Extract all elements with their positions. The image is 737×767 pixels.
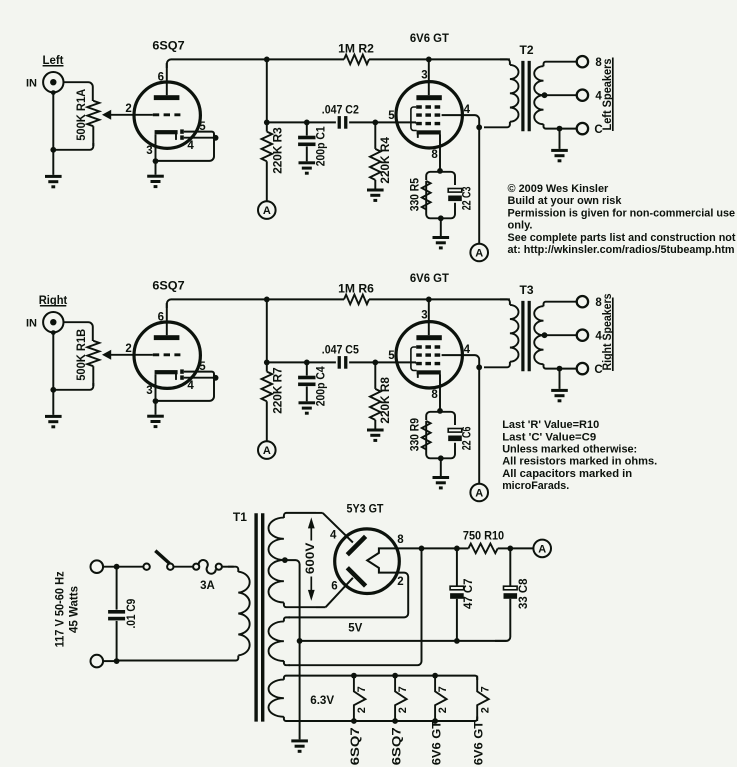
wire: 6V6 screen pin 4 to B+ node [442, 115, 483, 244]
node A (B+ to R3) [258, 201, 276, 219]
svg-text:A: A [263, 205, 271, 217]
6SQ7 control grid (dashes, pin 2) [153, 353, 181, 356]
wire: 6SQ7 plate to top rail [167, 299, 267, 308]
capacitor C5 .047 (coupling) [338, 356, 348, 369]
svg-text:© 2009 Wes Kinsler: © 2009 Wes Kinsler [508, 183, 609, 195]
svg-text:only.: only. [508, 220, 533, 232]
label Left (underlined) [43, 53, 64, 67]
ground (C1) [299, 161, 316, 174]
6SQ7 plate [154, 63, 180, 100]
ground (6V6 cathode network) [433, 458, 450, 489]
ground (6V6 cathode network) [433, 218, 450, 249]
wire: 6V6 cathode network box [426, 408, 455, 461]
ground (input jack Right) [45, 415, 62, 428]
600V span arrow [308, 517, 315, 601]
speaker jack C common (Left) [577, 123, 603, 136]
speaker jack 4 ohm (Right) [577, 330, 603, 343]
capacitor C4 200p [298, 362, 315, 401]
label Right Speakers (vertical) [602, 294, 614, 372]
label R7 220K [273, 367, 285, 414]
svg-text:2: 2 [125, 343, 131, 355]
label 1M R2 [338, 42, 374, 56]
wire: HV bottom lead to 5Y3 plate pin 6 [316, 578, 353, 607]
label 6V6 GT [410, 31, 450, 45]
svg-text:220K R7: 220K R7 [273, 367, 285, 414]
resistor R2 1M [344, 55, 369, 65]
wire: 6SQ7 plate to top rail [167, 59, 267, 68]
wire: top rail (plate feedback line) [264, 297, 510, 303]
label C6 22 [462, 427, 474, 451]
svg-text:A: A [538, 543, 546, 555]
6SQ7 control grid (dashes, pin 2) [153, 113, 181, 116]
5Y3 filament/cathode [367, 548, 398, 572]
speaker jack C common (Right) [577, 363, 603, 376]
svg-text:5: 5 [199, 121, 206, 133]
ground (R4) [367, 189, 384, 202]
svg-text:330 R5: 330 R5 [410, 177, 422, 211]
svg-text:6V6 GT: 6V6 GT [431, 721, 443, 766]
svg-text:Build at your own risk: Build at your own risk [508, 195, 623, 207]
6SQ7 diode plates (pins 4,5) [180, 369, 184, 379]
svg-text:7: 7 [356, 686, 368, 692]
fuse 3A [193, 560, 222, 574]
input jack IN (Left) [43, 72, 63, 95]
svg-text:22 C3: 22 C3 [462, 187, 474, 211]
wire: heater top bus [290, 673, 477, 680]
svg-text:4: 4 [464, 344, 471, 356]
wire: switch to fuse [174, 566, 194, 568]
wire: bottom AC line [103, 660, 117, 662]
svg-text:5: 5 [199, 361, 206, 373]
svg-text:Permission is given for non-co: Permission is given for non-commercial u… [508, 207, 736, 219]
svg-text:33 C8: 33 C8 [518, 578, 530, 609]
transformer T1 6.3V winding [268, 676, 290, 721]
label T2 [519, 43, 533, 57]
svg-text:A: A [263, 445, 271, 457]
svg-text:220K R4: 220K R4 [380, 136, 392, 183]
svg-text:8: 8 [431, 149, 438, 161]
svg-text:2: 2 [397, 707, 409, 713]
label 6.3V [310, 695, 334, 707]
ground (T2 secondary common) [551, 126, 568, 163]
speaker jack 8 ohm (Left) [577, 56, 603, 69]
note: parts conventions block [502, 419, 657, 492]
6V6 beam plates tie bracket [411, 347, 417, 371]
wire: B- return bus [297, 638, 507, 644]
svg-text:220K R8: 220K R8 [380, 376, 392, 423]
6V6 cathode (pin 8) [417, 130, 441, 171]
svg-text:Left: Left [43, 53, 64, 67]
svg-text:See complete parts list and co: See complete parts list and construction… [508, 232, 736, 244]
svg-text:A: A [475, 247, 483, 259]
svg-text:8: 8 [431, 389, 438, 401]
label 6SQ7 [152, 39, 185, 53]
wire: top rail down to coupling node [264, 59, 270, 125]
svg-text:2: 2 [479, 707, 491, 713]
svg-text:.047 C2: .047 C2 [322, 103, 359, 117]
svg-text:6: 6 [158, 311, 164, 323]
label R8 220K [380, 376, 392, 423]
transformer T2 secondary winding [534, 62, 577, 129]
svg-text:500K R1B: 500K R1B [74, 328, 88, 380]
ground (6SQ7 cathode) [147, 401, 164, 428]
wire: T3 secondary tap to 4-ohm jack [542, 332, 577, 338]
wire: top rail (plate feedback line) [264, 57, 510, 63]
svg-text:750 R10: 750 R10 [463, 529, 504, 543]
label Right (underlined) [39, 293, 68, 307]
6V6 grids (three dash rows) [416, 347, 441, 364]
transformer T1 core [256, 513, 263, 721]
svg-text:2: 2 [437, 707, 449, 713]
label R5 330 [410, 177, 422, 211]
6V6 plate (pin 3) [416, 59, 441, 100]
svg-text:220K R3: 220K R3 [273, 127, 285, 174]
6V6 cathode (pin 8) [417, 370, 441, 411]
svg-text:4: 4 [330, 529, 337, 541]
ground (C4) [299, 401, 316, 414]
wire: HV centre tap to ground [282, 557, 300, 739]
heater of 6V6 GT (pins 2,7) at x=435.1 [435, 676, 449, 721]
svg-text:2: 2 [397, 576, 403, 588]
svg-text:Last 'C' Value=C9: Last 'C' Value=C9 [502, 431, 596, 443]
svg-text:2: 2 [356, 707, 368, 713]
label 6V6 GT [410, 271, 450, 285]
note: copyright block [508, 183, 736, 256]
svg-text:4: 4 [187, 140, 194, 152]
wire: heater bottom bus [290, 717, 477, 724]
ground (T3 secondary common) [551, 366, 568, 403]
label 3A [200, 580, 215, 592]
resistor R6 1M [344, 295, 369, 305]
svg-text:Unless marked otherwise:: Unless marked otherwise: [502, 444, 637, 456]
5Y3 plate 1 (pin 4) [347, 536, 365, 554]
svg-text:117 V 50-60 Hz: 117 V 50-60 Hz [55, 571, 67, 647]
6V6 plate (pin 3) [416, 299, 441, 340]
potentiometer R1B 500K [53, 341, 153, 390]
svg-text:6SQ7: 6SQ7 [152, 279, 185, 293]
svg-text:6V6 GT: 6V6 GT [410, 31, 450, 45]
svg-text:T2: T2 [519, 43, 533, 57]
svg-text:6.3V: 6.3V [310, 695, 334, 707]
label 5Y3 GT [347, 501, 385, 515]
svg-text:5: 5 [388, 350, 395, 362]
wire: top AC line to switch [103, 564, 143, 570]
svg-text:at: http://wkinsler.com/radios: at: http://wkinsler.com/radios/5tubeamp.… [508, 244, 735, 256]
heater of 6SQ7 (pins 2,7) at x=353.9 [354, 676, 368, 721]
resistor R9 330 [422, 421, 431, 450]
ground (input jack Left) [45, 175, 62, 188]
svg-text:7: 7 [437, 686, 449, 692]
svg-text:47 C7: 47 C7 [463, 579, 475, 609]
capacitor C6 22 (electrolytic) [448, 429, 462, 442]
label IN [26, 317, 37, 329]
label R4 220K [380, 136, 392, 183]
svg-text:3A: 3A [200, 580, 215, 592]
label T3 [519, 283, 533, 297]
svg-text:Last 'R' Value=R10: Last 'R' Value=R10 [502, 419, 599, 431]
label pin 2 (6SQ7 grid) [125, 103, 131, 115]
svg-text:5: 5 [388, 110, 395, 122]
transformer T2 core [523, 61, 529, 131]
resistor R10 750 [468, 544, 533, 554]
label .01 C9 [126, 599, 138, 629]
AC line terminal top [91, 560, 104, 573]
svg-text:microFarads.: microFarads. [502, 480, 569, 492]
speaker jack 8 ohm (Right) [577, 296, 603, 309]
svg-text:8: 8 [397, 534, 404, 546]
svg-text:6V6 GT: 6V6 GT [410, 271, 450, 285]
svg-text:4: 4 [464, 104, 471, 116]
6SQ7 cathode (pin 3) [155, 130, 178, 161]
transformer T3 secondary winding [534, 302, 577, 369]
wire: 6V6 control grid pin 5 [415, 362, 417, 363]
label R1B 500K [74, 328, 88, 380]
svg-text:330 R9: 330 R9 [410, 418, 422, 451]
svg-text:IN: IN [26, 317, 37, 329]
capacitor C7 47 (filter) [450, 548, 464, 643]
heater of 6V6 GT (pins 2,7) at x=477.2 [477, 676, 491, 721]
label 6V6 GT (heater) [473, 721, 485, 766]
svg-text:3: 3 [421, 70, 427, 82]
svg-text:IN: IN [26, 77, 37, 89]
rectifier 5Y3 GT envelope [335, 529, 400, 594]
svg-text:2: 2 [125, 103, 131, 115]
svg-text:5V: 5V [348, 623, 362, 635]
label 47 C7 [463, 579, 475, 609]
transformer T3 core [523, 301, 529, 371]
wire: 5Y3 pin 8 to filter [399, 546, 469, 552]
6SQ7 cathode (pin 3) [155, 370, 178, 401]
svg-text:1M R6: 1M R6 [338, 282, 374, 296]
svg-text:All capacitors marked in: All capacitors marked in [502, 468, 632, 480]
svg-text:All resistors marked in ohms.: All resistors marked in ohms. [502, 456, 657, 468]
label 6SQ7 (heater) [350, 727, 362, 765]
heater of 6SQ7 (pins 2,7) at x=395.1 [395, 676, 409, 721]
wire: coupling node row [267, 360, 416, 366]
power switch [143, 551, 173, 570]
svg-text:200p C4: 200p C4 [316, 366, 328, 407]
svg-text:500K R1A: 500K R1A [74, 88, 88, 140]
label 6SQ7 [152, 279, 185, 293]
wire: diode plates tied to cathode ground loop [153, 132, 219, 164]
labels pins 3,4,5,8 of 6V6 [388, 310, 470, 402]
wire: HV top lead to 5Y3 plate pin 4 [316, 513, 353, 543]
svg-text:3: 3 [146, 385, 152, 397]
wire: T2 secondary tap to 4-ohm jack [542, 92, 577, 98]
resistor R7 220K (plate load) [262, 362, 273, 441]
AC line terminal bottom [91, 655, 104, 668]
6V6 grids (three dash rows) [416, 107, 441, 124]
label 117 V 50-60 Hz 45 Watts [55, 571, 81, 647]
transformer T1 primary winding [117, 567, 250, 661]
label C1 200p [316, 126, 328, 167]
potentiometer R1A 500K [53, 101, 153, 150]
capacitor C3 22 (electrolytic) [448, 189, 462, 202]
svg-text:6: 6 [331, 581, 337, 593]
transformer T3 primary winding [484, 299, 519, 367]
labels pins 3,4,5,6 of 6SQ7 [146, 311, 206, 397]
ground (R8) [367, 429, 384, 442]
capacitor C1 200p [298, 122, 315, 161]
svg-text:5Y3 GT: 5Y3 GT [347, 501, 385, 515]
svg-text:22 C6: 22 C6 [462, 427, 474, 451]
wire: Left input jack to pot top [56, 82, 93, 101]
svg-text:3: 3 [421, 310, 427, 322]
resistor R5 330 [422, 181, 431, 210]
label 6V6 GT (heater) [431, 721, 443, 766]
label 750 R10 [463, 529, 504, 543]
capacitor C2 .047 (coupling) [338, 116, 348, 129]
5Y3 plate 2 (pin 6) [347, 568, 365, 586]
transformer T1 HV secondary winding [269, 513, 317, 607]
svg-text:T1: T1 [233, 510, 247, 524]
label T1 [233, 510, 247, 524]
node A (B+ at 6V6 screen, Right) [470, 484, 488, 502]
svg-text:3: 3 [146, 145, 152, 157]
beam tetrode 6V6 GT (Right channel) envelope [396, 322, 462, 388]
wire: 6V6 screen pin 4 to B+ node [442, 355, 483, 484]
wire: 5Y3 pin 2 to 5V winding top [289, 573, 409, 618]
wire: 5V winding bottom to B+ (pin 8) [289, 548, 422, 665]
svg-text:45 Watts: 45 Watts [69, 586, 81, 633]
capacitor C8 33 (filter) [495, 548, 517, 641]
triode 6SQ7 (Right channel) envelope [134, 322, 200, 388]
label pin 2 (6SQ7 grid) [125, 343, 131, 355]
label IN [26, 77, 37, 89]
wire: coupling node row [267, 120, 416, 126]
label .047 C2 [322, 103, 359, 117]
svg-text:6SQ7: 6SQ7 [350, 727, 362, 765]
wire: jack down to ground junction [50, 93, 56, 175]
node A (B+ to R7) [258, 441, 276, 459]
label 6SQ7 (heater) [391, 727, 403, 765]
label 1M R6 [338, 282, 374, 296]
label R9 330 [410, 418, 422, 451]
label 5V [348, 623, 362, 635]
svg-text:6: 6 [158, 71, 164, 83]
label .047 C5 [322, 343, 359, 357]
svg-text:600V: 600V [305, 542, 317, 574]
label 33 C8 [518, 578, 530, 609]
wire: 6V6 control grid pin 5 [415, 122, 417, 123]
label 600V [305, 542, 317, 574]
wire: diode plates tied to cathode ground loop [153, 372, 219, 404]
6V6 beam plates tie bracket [411, 107, 417, 131]
6SQ7 plate [154, 303, 180, 340]
label C3 22 [462, 187, 474, 211]
svg-text:4: 4 [187, 380, 194, 392]
node A (B+ at 6V6 screen, Left) [470, 244, 488, 262]
input jack IN (Right) [43, 312, 63, 335]
triode 6SQ7 (Left channel) envelope [134, 82, 200, 148]
svg-text:200p C1: 200p C1 [316, 126, 328, 167]
ground (HV centre tap) [291, 739, 308, 752]
labels pins 2,4,6,8 of 5Y3 [330, 529, 404, 592]
svg-text:Right: Right [39, 293, 68, 307]
svg-text:7: 7 [479, 686, 491, 692]
svg-text:.047 C5: .047 C5 [322, 343, 359, 357]
node A (B+ output) [533, 540, 551, 558]
svg-text:T3: T3 [519, 283, 533, 297]
wire: top rail down to coupling node [264, 299, 270, 365]
svg-text:7: 7 [397, 686, 409, 692]
svg-text:6SQ7: 6SQ7 [152, 39, 185, 53]
speaker jack 4 ohm (Left) [577, 90, 603, 103]
wire: Right input jack to pot top [56, 322, 93, 341]
label R3 220K [273, 127, 285, 174]
svg-text:A: A [475, 487, 483, 499]
6SQ7 diode plates (pins 4,5) [180, 129, 184, 139]
wire: jack down to ground junction [50, 333, 56, 415]
label Left Speakers (vertical) [602, 58, 614, 132]
resistor R3 220K (plate load) [262, 122, 273, 201]
labels pins 3,4,5,6 of 6SQ7 [146, 71, 206, 157]
label R1A 500K [74, 88, 88, 140]
beam tetrode 6V6 GT (Left channel) envelope [396, 82, 462, 148]
wire: 6V6 cathode network box [426, 168, 455, 221]
svg-text:6V6 GT: 6V6 GT [473, 721, 485, 766]
ground (6SQ7 cathode) [147, 161, 164, 188]
labels pins 3,4,5,8 of 6V6 [388, 70, 470, 162]
svg-text:.01 C9: .01 C9 [126, 599, 138, 629]
transformer T1 5V winding [268, 617, 290, 665]
svg-text:6SQ7: 6SQ7 [391, 727, 403, 765]
transformer T2 primary winding [484, 59, 519, 127]
label C4 200p [316, 366, 328, 407]
svg-text:1M R2: 1M R2 [338, 42, 374, 56]
resistor R4 220K (grid leak) [370, 122, 381, 188]
capacitor C9 .01 (line) [108, 567, 125, 664]
resistor R8 220K (grid leak) [370, 362, 381, 428]
